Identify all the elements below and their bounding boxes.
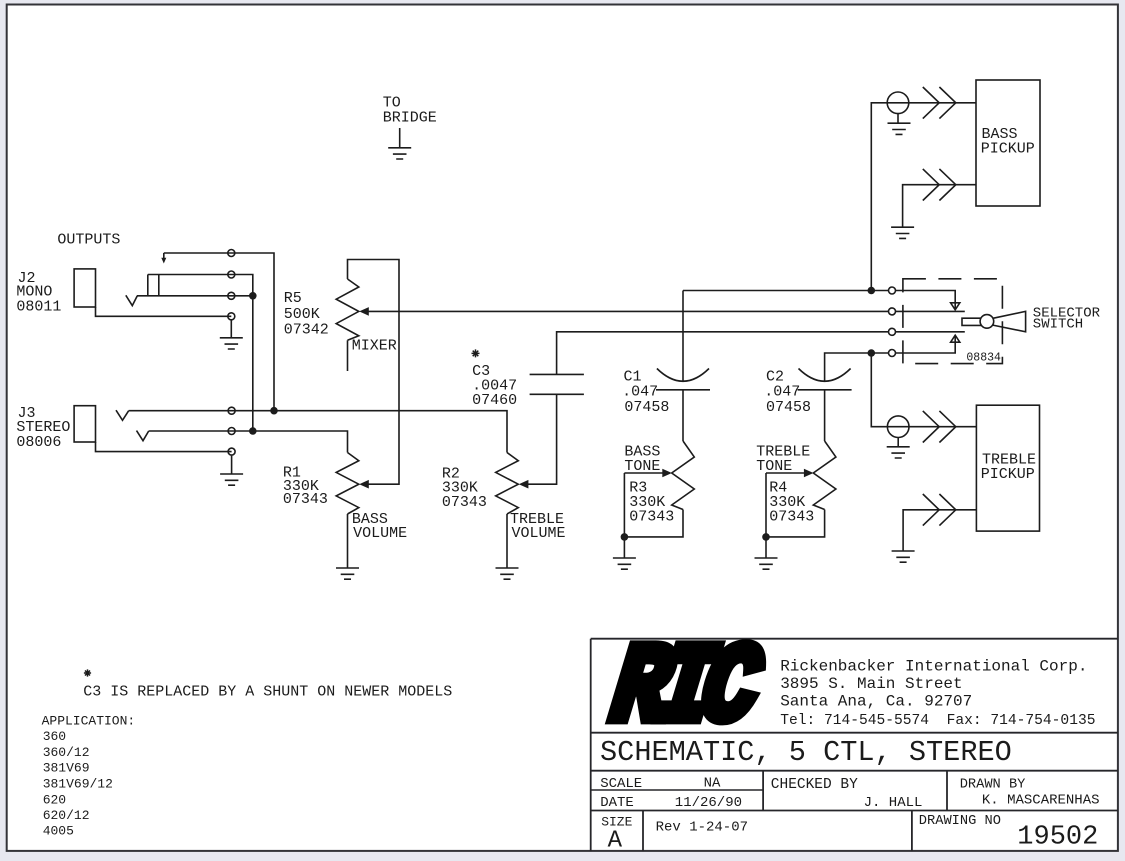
svg-text:Tel: 714-545-5574 Fax: 714-75: Tel: 714-545-5574 Fax: 714-754-0135 (780, 713, 1095, 729)
wire: J3 sleeve to ground (96, 442, 232, 452)
title block vertical size/rev (642, 811, 644, 852)
wire: C3 bottom lead to R2 wiper (528, 394, 557, 484)
wire: J2 ground stem (230, 320, 232, 338)
capacitor C3 top plate (530, 373, 584, 375)
svg-text:C3 IS REPLACED BY A SHUNT ON N: C3 IS REPLACED BY A SHUNT ON NEWER MODEL… (83, 684, 452, 701)
svg-text:08011: 08011 (16, 299, 61, 316)
wire: J3 ring line to R1 top (149, 431, 348, 453)
wire: R4 ground stem (765, 537, 767, 558)
selector contact circle 4 (889, 350, 896, 357)
wire: selector internal contact 3 (896, 331, 965, 333)
wire: R3 wiper line (624, 472, 663, 474)
shield circle (bass hot) (887, 92, 909, 114)
arrowhead R1 wiper (left) (359, 480, 369, 489)
potentiometer R5 zigzag (336, 279, 359, 340)
jack J2 barrel divider (158, 275, 160, 296)
svg-text:PICKUP: PICKUP (981, 466, 1035, 483)
svg-text:07343: 07343 (442, 494, 487, 511)
ground (R4) (755, 558, 778, 569)
svg-text:SWITCH: SWITCH (1033, 317, 1083, 333)
title block vertical drawn-by left (946, 771, 948, 811)
junction dot J3-2/J2 vertical (249, 427, 257, 435)
wire: C1 bottom lead to R3 (682, 390, 684, 441)
connector chevrons (treble hot) (923, 411, 956, 443)
svg-text:MIXER: MIXER (352, 337, 397, 354)
svg-text:07342: 07342 (284, 321, 329, 338)
jack J2 barrel left cap (147, 275, 149, 296)
title block divider under title row (591, 770, 1118, 772)
wire: J2 barrel top line with corner down to J3 bus 2 (148, 275, 253, 432)
svg-text:07458: 07458 (624, 399, 669, 416)
ground (R1) (336, 568, 359, 579)
wire: J3 tip line to R2 top (129, 411, 507, 453)
ground (to bridge) (388, 148, 411, 159)
wire: selector internal contact 2 (896, 310, 965, 312)
ground (R2) (496, 568, 519, 579)
wire: bass pickup return (903, 185, 976, 228)
svg-text:07460: 07460 (472, 392, 517, 409)
capacitor C1 curved plate (657, 369, 709, 382)
svg-text:TONE: TONE (756, 458, 792, 475)
junction dot R4 ground (762, 533, 770, 541)
svg-text:381V69/12: 381V69/12 (43, 777, 113, 792)
wire: treble pickup hot from selector line 4 (871, 353, 976, 427)
svg-text:360: 360 (43, 729, 66, 744)
svg-text:.047: .047 (622, 384, 658, 401)
contact spring V (J3 tip) (116, 410, 129, 420)
terminal circle J3-1 (228, 407, 235, 414)
terminal circle J2-3 (228, 292, 235, 299)
selector contact circle 3 (889, 328, 896, 335)
title block divider scale/date (591, 789, 763, 791)
wire: R5 bottom lead (open) (347, 340, 349, 371)
title block vertical drawing-no (911, 811, 913, 852)
wire: bass pickup hot to selector line 1 (871, 103, 976, 291)
open arrowhead (up) selector (951, 335, 960, 342)
wire: C2 bottom lead to R4 (824, 390, 826, 441)
connector chevrons (bass hot) (923, 87, 956, 119)
contact spring V (J2 tip) (126, 295, 138, 305)
ground (treble return) (892, 551, 915, 562)
junction dot R3 ground (621, 533, 629, 541)
svg-text:APPLICATION:: APPLICATION: (42, 714, 136, 729)
selector actuator cone (993, 311, 1026, 331)
svg-text:SCHEMATIC, 5 CTL, STEREO: SCHEMATIC, 5 CTL, STEREO (600, 736, 1012, 769)
svg-text:J. HALL: J. HALL (864, 795, 923, 811)
wire: selector line 3 to C3 top (557, 332, 889, 375)
svg-text:07343: 07343 (283, 491, 328, 508)
svg-text:A: A (608, 827, 623, 854)
treble pickup box (976, 405, 1039, 531)
svg-text:PICKUP: PICKUP (981, 140, 1035, 157)
potentiometer R1 zigzag (336, 453, 359, 515)
title block left border (590, 639, 592, 851)
svg-text:620: 620 (43, 792, 66, 807)
svg-text:08006: 08006 (16, 434, 61, 451)
svg-text:08834: 08834 (966, 351, 1001, 364)
wire: bridge ground stem (399, 128, 401, 148)
svg-text:Rickenbacker International Cor: Rickenbacker International Corp. (780, 658, 1087, 676)
svg-text:360/12: 360/12 (43, 745, 90, 760)
jack J3 body (74, 406, 95, 442)
svg-text:VOLUME: VOLUME (353, 525, 407, 542)
selector actuator shaft (962, 318, 982, 325)
capacitor C2 straight plate (798, 389, 852, 391)
junction dot J2 tip/vertical (249, 292, 257, 300)
terminal circle J2-1 (228, 250, 235, 257)
terminal circle J2-4 (228, 313, 235, 320)
wire: R3 ground stem (623, 537, 625, 558)
ground (bass return) (891, 227, 914, 238)
contact spring V (J3 ring) (137, 431, 149, 441)
wire: J2 sleeve to ground (96, 307, 232, 316)
svg-text:DRAWING NO: DRAWING NO (919, 814, 1001, 829)
junction dot selector line1 / bass pickup (868, 287, 876, 295)
wire: R4 bottom lead (766, 510, 825, 537)
selector contact circle 1 (889, 287, 896, 294)
wire: J3 ground stem (231, 456, 233, 474)
wire: J2 tip contact line (137, 295, 253, 297)
wire: C1 top lead from selector line 1 (682, 291, 684, 382)
selector contact circle 2 (889, 308, 896, 315)
jack J2 body (74, 269, 95, 307)
svg-text:07343: 07343 (629, 509, 674, 526)
terminal circle J2-2 (228, 271, 235, 278)
svg-text:DATE: DATE (600, 795, 634, 811)
junction dot selector line4 / treble pickup (868, 349, 876, 357)
wire: R5 top lead jog and vertical to R1 wiper (348, 260, 400, 485)
svg-text:3895 S. Main Street: 3895 S. Main Street (780, 675, 962, 693)
svg-text:07458: 07458 (766, 399, 811, 416)
svg-text:381V69: 381V69 (43, 761, 90, 776)
svg-text:DRAWN BY: DRAWN BY (960, 778, 1026, 793)
svg-text:19502: 19502 (1017, 823, 1098, 853)
svg-text:BRIDGE: BRIDGE (383, 110, 437, 127)
arrowhead (small, down) (161, 258, 166, 264)
selector switch dashed enclosure 08834 (903, 279, 1003, 364)
wire: J2 tip-switch line with corner down to J3 bus (164, 253, 274, 411)
connector chevrons (treble return) (923, 494, 956, 526)
junction dot J3-1/J2 vertical (270, 407, 278, 415)
svg-text:OUTPUTS: OUTPUTS (57, 232, 120, 249)
potentiometer R2 zigzag (496, 453, 519, 515)
selector actuator knob (980, 315, 994, 329)
connector chevrons (bass return) (923, 169, 956, 201)
wire: R1 bottom lead (347, 514, 349, 568)
wire: selector internal from contact 1 (896, 291, 955, 310)
capacitor C2 curved plate (799, 369, 851, 382)
terminal circle J3-2 (228, 428, 235, 435)
svg-text:Rev 1-24-07: Rev 1-24-07 (656, 819, 748, 835)
arrow stub at J2 switch contact (163, 253, 165, 259)
potentiometer R4 zigzag (813, 441, 836, 510)
ground (treble shield) (887, 447, 910, 458)
ground (J3) (220, 474, 243, 485)
wire: R4 wiper line (766, 472, 805, 474)
capacitor C3 asterisk (472, 349, 480, 357)
wire: R3 wiper drop to ground junction (623, 473, 625, 537)
title block top border (591, 638, 1118, 640)
svg-text:.047: .047 (764, 384, 800, 401)
ground (bass shield) (888, 123, 911, 134)
svg-text:SCALE: SCALE (600, 776, 642, 792)
title block divider above bottom row (591, 810, 1118, 812)
svg-text:620/12: 620/12 (43, 808, 90, 823)
svg-text:CHECKED BY: CHECKED BY (771, 777, 858, 793)
ground (R3) (613, 558, 636, 569)
svg-text:07343: 07343 (769, 509, 814, 526)
RIC logo (605, 629, 766, 753)
svg-text:NA: NA (704, 776, 721, 792)
wire: R2 bottom lead (506, 514, 508, 568)
wire: treble pickup return (903, 510, 976, 551)
svg-text:TONE: TONE (624, 458, 660, 475)
arrowhead R4 wiper (right) (804, 469, 814, 478)
ground (J2) (220, 338, 243, 349)
arrowhead R2 wiper (left) (519, 480, 529, 489)
wire: selector line 1 from C1 (683, 290, 888, 292)
wire: R5 wiper line from selector (368, 310, 888, 312)
arrowhead R3 wiper (right) (662, 469, 672, 478)
svg-text:K. MASCARENHAS: K. MASCARENHAS (982, 792, 1100, 808)
svg-text:11/26/90: 11/26/90 (675, 795, 742, 811)
wire: bass shield ground stem (897, 114, 899, 124)
bass pickup box (976, 80, 1040, 206)
wire: R3 bottom lead (624, 510, 683, 537)
svg-text:4005: 4005 (43, 824, 74, 839)
open arrowhead (down) selector (951, 303, 960, 310)
title block divider under logo row (591, 732, 1118, 734)
terminal circle J3-3 (228, 448, 235, 455)
svg-text:R5: R5 (284, 290, 302, 307)
capacitor C3 bottom plate (530, 393, 584, 395)
wire: treble shield ground stem (897, 438, 899, 447)
wire: selector internal from contact 4 (896, 336, 955, 353)
potentiometer R3 zigzag (672, 441, 695, 510)
title block vertical checked-by left (762, 771, 764, 811)
capacitor C1 straight plate (656, 389, 710, 391)
arrowhead R5 wiper (left) (359, 307, 369, 316)
footnote asterisk (84, 669, 91, 676)
svg-text:Santa Ana, Ca. 92707: Santa Ana, Ca. 92707 (780, 692, 972, 710)
shield circle (treble hot) (887, 416, 909, 438)
svg-text:VOLUME: VOLUME (512, 525, 566, 542)
wire: R4 wiper drop to ground junction (765, 473, 767, 537)
wire: selector line 4 to C2 top (825, 353, 889, 381)
